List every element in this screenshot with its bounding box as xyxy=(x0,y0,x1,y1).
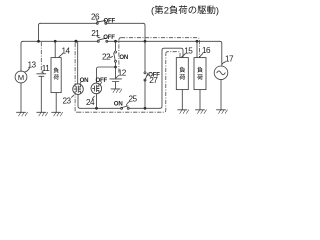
wire (chain) right rail to load15 xyxy=(166,52,180,58)
switch 26 blade (open) xyxy=(97,20,106,22)
transistor 24 branch: tap from battery12 wire xyxy=(114,66,117,69)
transistor Q23 circle xyxy=(73,84,84,95)
ground (battery 12) xyxy=(111,89,122,93)
svg-text:2: 2 xyxy=(164,4,169,15)
leader 25 xyxy=(126,102,129,106)
wire L to transistor 24 xyxy=(97,67,116,83)
battery 11 plates xyxy=(37,73,46,75)
node bus/switch22 xyxy=(114,40,117,43)
ground (load 14) xyxy=(52,112,63,116)
load 16 (負荷) xyxy=(194,58,206,90)
transistor 24 internals xyxy=(93,84,99,93)
svg-text:25: 25 xyxy=(129,94,138,103)
battery 12 plates xyxy=(110,78,122,80)
wire (chain) bottom current path xyxy=(77,54,166,112)
svg-text:13: 13 xyxy=(28,60,37,69)
switch 22 blade (closed) xyxy=(114,53,116,60)
leader OFF 24 xyxy=(100,83,101,85)
wire load 16 to ground xyxy=(199,90,201,110)
svg-text:ON: ON xyxy=(114,101,123,108)
AC sine xyxy=(217,71,225,75)
leader 12 xyxy=(116,76,118,78)
svg-text:ON: ON xyxy=(119,54,128,61)
wire (chain) battery 12 current path xyxy=(119,38,121,73)
wire load 14 to ground xyxy=(55,93,57,113)
node bus/top-left vertical xyxy=(37,40,40,43)
switch 22 branch wire upper xyxy=(115,41,117,51)
switch 21 contacts xyxy=(97,40,99,42)
leader ON 23 xyxy=(80,82,81,84)
svg-text:16: 16 xyxy=(202,46,211,55)
wire AC source to ground xyxy=(220,80,222,110)
switch 27 blade (open) xyxy=(145,73,148,79)
title (第2負荷の駆動) xyxy=(151,4,219,15)
wire top-right corner down x=145 xyxy=(143,23,145,41)
switch 27 branch upper xyxy=(144,41,146,71)
wire bottom bus y=108.3 xyxy=(80,107,160,109)
wire switch22 to battery 12 xyxy=(115,62,117,79)
switch 27 contacts xyxy=(144,72,146,74)
svg-text:17: 17 xyxy=(225,54,234,63)
wire top-left corner down x=38.5 xyxy=(39,23,41,41)
node bus/transistor23 xyxy=(74,40,77,43)
switch 26 contacts xyxy=(96,22,98,24)
svg-text:): ) xyxy=(216,4,219,15)
svg-text:22: 22 xyxy=(102,52,111,61)
wire (chain) battery 11 feed xyxy=(40,42,42,73)
svg-text:M: M xyxy=(18,73,24,82)
ground (load 16) xyxy=(196,110,207,114)
node bus/load14 xyxy=(54,40,57,43)
leader 27 xyxy=(147,75,149,76)
wire main bus y=41.3 left part xyxy=(23,40,220,42)
svg-text:21: 21 xyxy=(91,29,100,38)
wire battery 12 to ground xyxy=(115,82,117,89)
wire load 15 to ground xyxy=(181,90,183,110)
ground (load 15) xyxy=(178,110,189,114)
transistor 23 internals xyxy=(74,84,80,93)
leader 26 xyxy=(97,20,100,22)
leader 21 xyxy=(97,36,100,38)
node bus/switch27 xyxy=(144,40,147,43)
svg-text:OFF: OFF xyxy=(104,18,116,25)
leader 14 xyxy=(59,54,63,57)
node switch27 / bottom bus xyxy=(144,107,147,110)
leader 11 xyxy=(42,71,45,73)
wire right rail top corner to load15 xyxy=(162,48,183,57)
leader 13 xyxy=(25,68,30,72)
svg-text:24: 24 xyxy=(86,98,95,107)
leader 22 xyxy=(109,56,113,59)
ground (motor) xyxy=(17,112,28,116)
ground (AC source 17) xyxy=(217,110,228,114)
wire (chain) current path left of 23 xyxy=(75,43,77,112)
wire top bus y=23.3 xyxy=(41,22,144,24)
wire load 16 feed xyxy=(196,41,198,57)
wire (chain) top current path y=37.7 xyxy=(121,38,199,58)
wire battery 11 to ground xyxy=(40,76,42,112)
svg-text:26: 26 xyxy=(91,13,100,22)
svg-text:27: 27 xyxy=(149,76,158,85)
switch 22 contacts xyxy=(115,51,117,53)
leader 16 xyxy=(199,53,203,57)
switch 25 contacts xyxy=(121,107,123,109)
svg-text:OFF: OFF xyxy=(103,34,115,41)
load 15 (負荷) xyxy=(176,58,188,90)
motor M circle xyxy=(15,71,27,83)
wire transistor 23 feed xyxy=(77,41,79,84)
svg-text:23: 23 xyxy=(63,96,72,105)
wire motor to ground xyxy=(20,83,22,112)
node transistor 24 / bottom bus xyxy=(95,107,98,110)
leader 15 xyxy=(182,54,186,57)
wire bus right corner down to AC source xyxy=(220,41,222,66)
svg-text:15: 15 xyxy=(184,47,193,56)
leader 24 xyxy=(92,96,94,99)
leader 23 xyxy=(72,95,74,97)
leader 17 xyxy=(222,62,225,65)
wire bus left corner down to motor x=21 xyxy=(21,41,23,71)
transistor Q24 circle xyxy=(91,83,102,94)
wire bottom-right corner up x=162 xyxy=(160,50,162,108)
wire transistor 23 to bottom bus xyxy=(78,94,80,108)
switch 21 blade (open) xyxy=(98,38,107,40)
switch 27 lower wire xyxy=(144,80,146,108)
wire load 14 feed xyxy=(54,41,56,57)
ground (battery 11) xyxy=(37,112,48,116)
node bus/load16 xyxy=(196,40,199,43)
switch 25 blade (closed) xyxy=(122,106,129,108)
wire transistor 24 to bottom bus xyxy=(96,94,98,109)
AC source 17 circle xyxy=(214,66,228,80)
load 14 (負荷) xyxy=(51,58,61,93)
